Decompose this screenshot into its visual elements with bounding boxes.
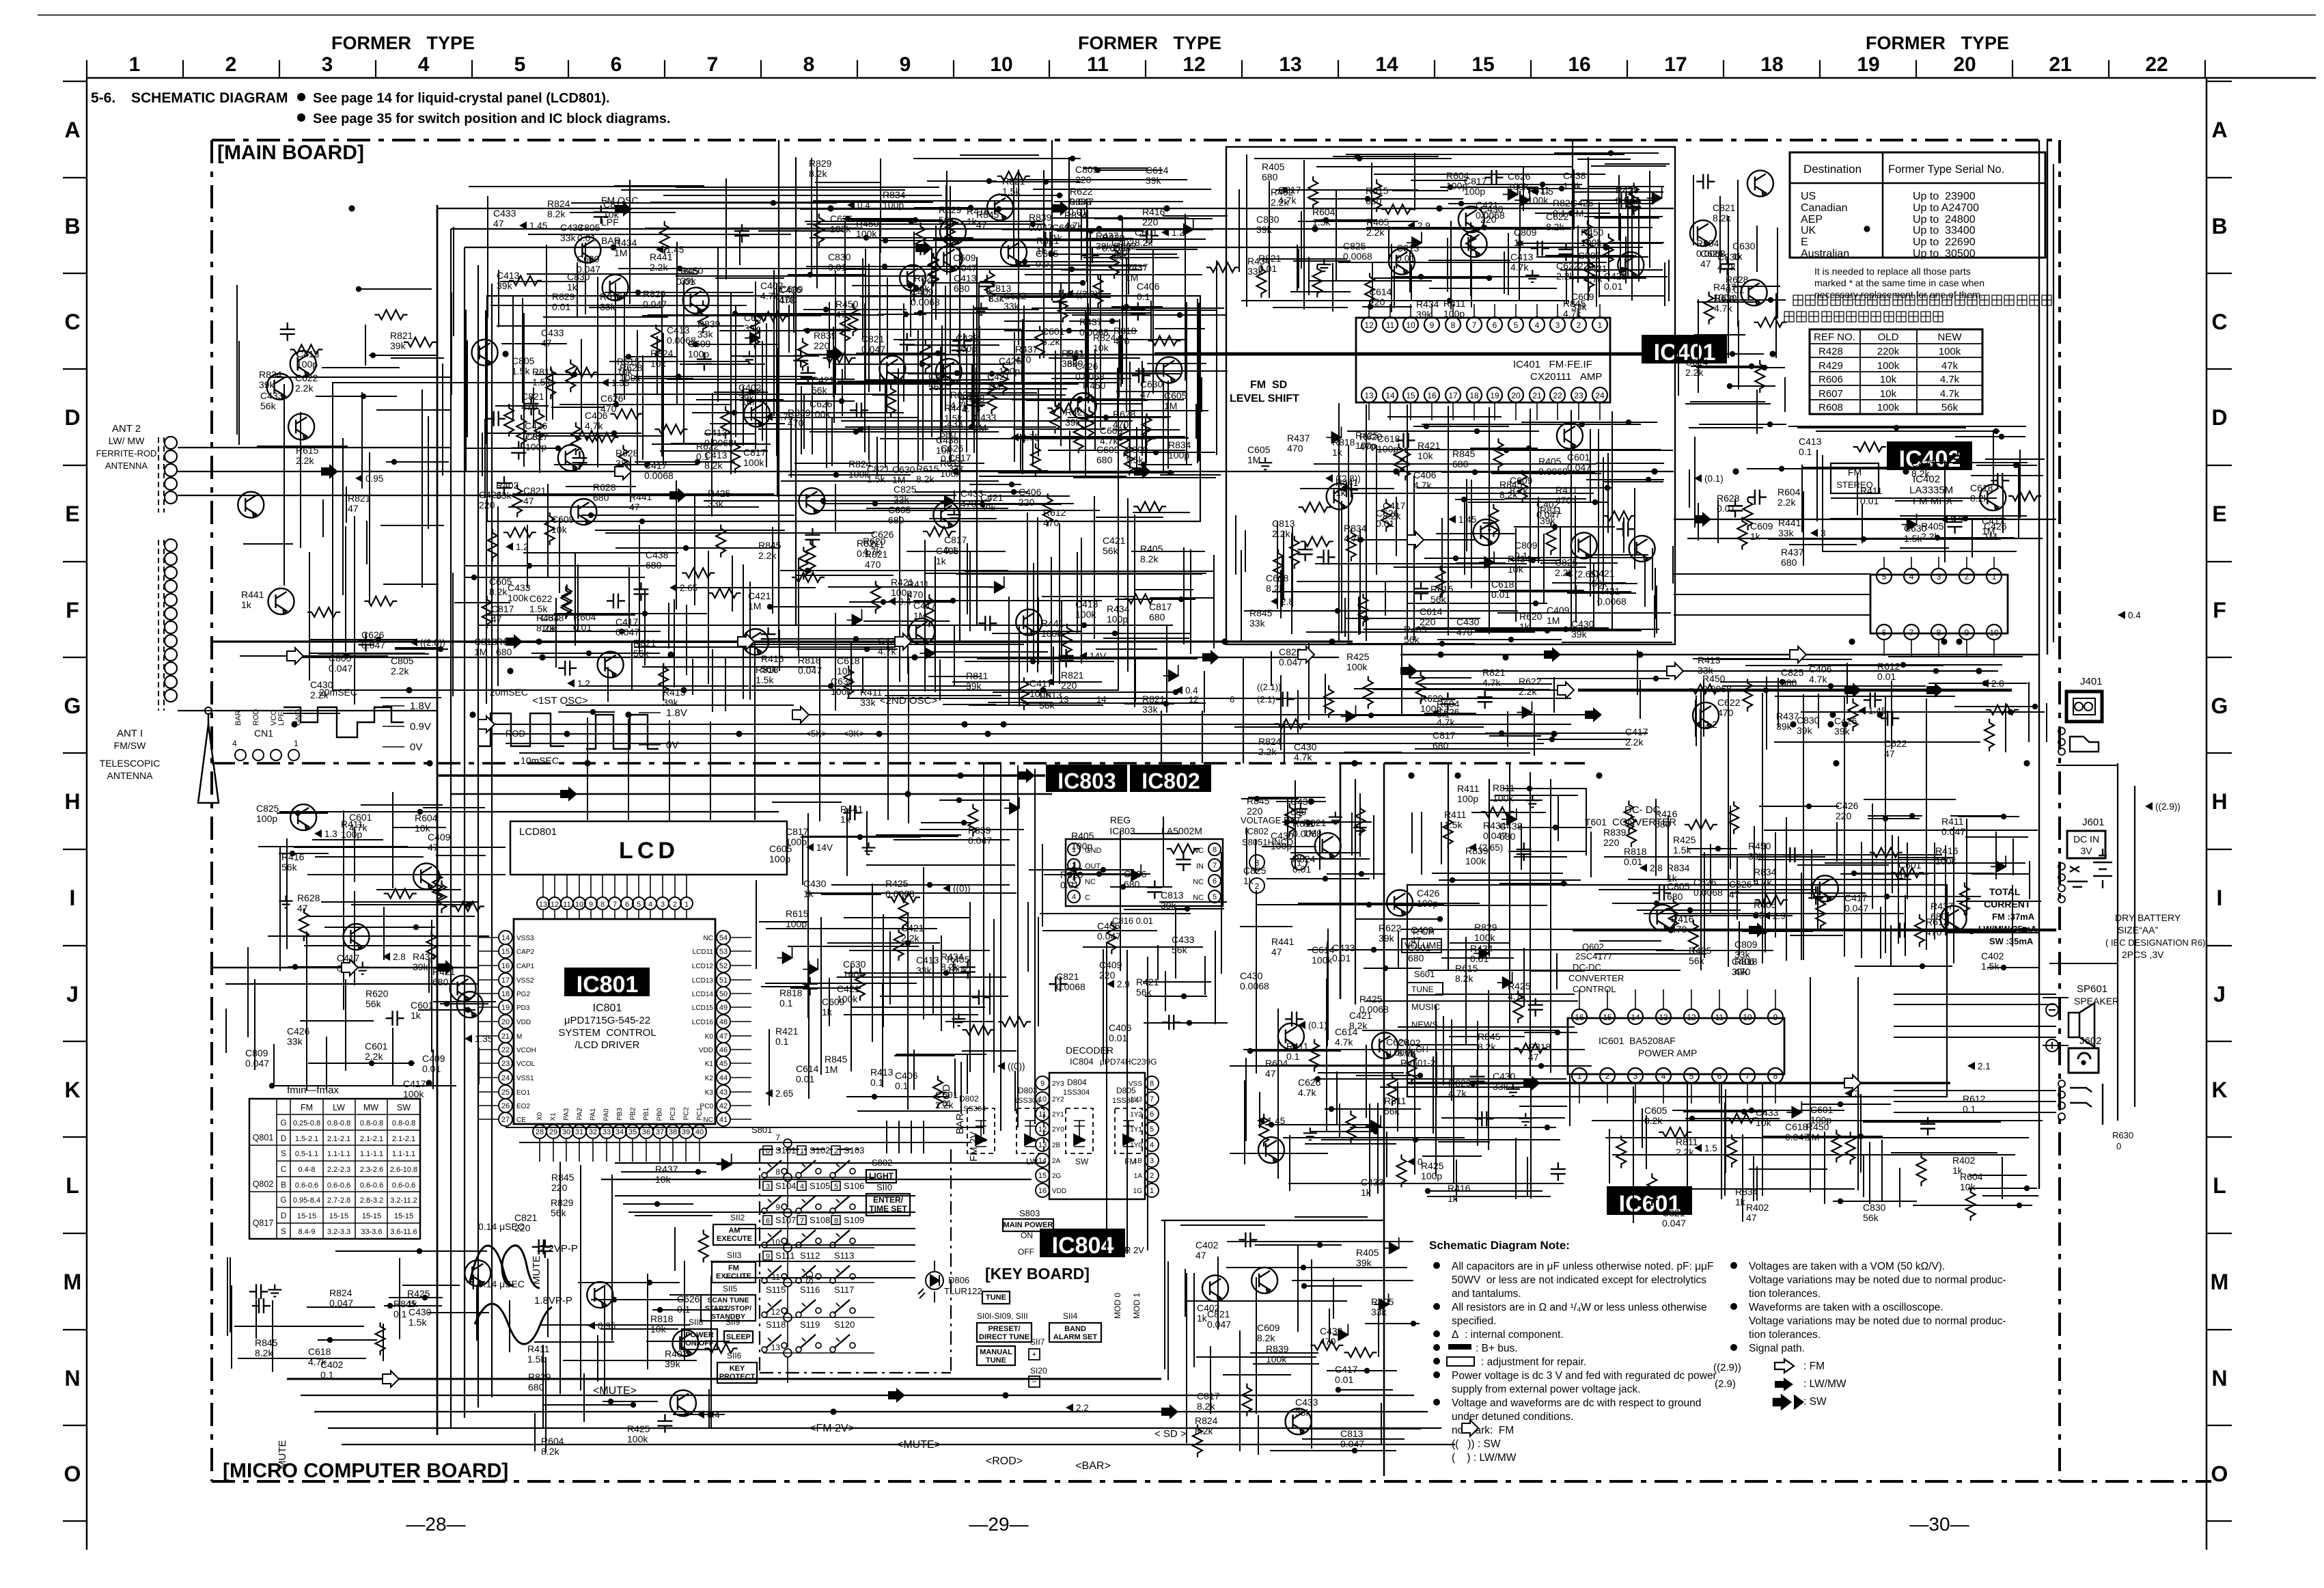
wire [1508, 233, 1509, 295]
wire [908, 373, 1180, 374]
wire [1612, 242, 1664, 243]
svg-text:1.2: 1.2 [577, 679, 590, 689]
resistor [1084, 407, 1094, 439]
svg-text:C618: C618 [308, 1346, 331, 1357]
svg-text:1.8VP-P: 1.8VP-P [534, 1295, 572, 1306]
wire [1554, 152, 1659, 154]
svg-text:NC: NC [1085, 878, 1096, 886]
wire [613, 394, 887, 395]
transistor [575, 237, 600, 263]
svg-text:0.0068: 0.0068 [1476, 210, 1505, 221]
wire [866, 508, 1008, 509]
svg-text:R620: R620 [1060, 869, 1083, 880]
wire [1604, 481, 1663, 482]
svg-text:—28—: —28— [406, 1514, 465, 1535]
svg-text:4.7k: 4.7k [1298, 1087, 1316, 1098]
svg-text:R411: R411 [1444, 809, 1467, 820]
column tick [1627, 60, 1628, 78]
svg-text:C421: C421 [980, 492, 1004, 503]
svg-text:R405: R405 [1262, 161, 1285, 172]
svg-text:PC3: PC3 [669, 1107, 677, 1121]
svg-text:39k: 39k [1732, 966, 1748, 977]
capacitor [497, 476, 512, 495]
wire [1246, 154, 1247, 307]
svg-text:100k: 100k [830, 223, 851, 234]
svg-text:M: M [516, 1033, 522, 1041]
junction [361, 394, 366, 399]
wire [635, 376, 812, 377]
bus wire [1926, 698, 1927, 950]
switch S104 [762, 1181, 796, 1214]
wire [1094, 349, 1096, 450]
svg-text:C618: C618 [1970, 482, 1993, 493]
svg-text:R437: R437 [655, 1164, 678, 1175]
svg-text:START/STOP/: START/STOP/ [705, 1304, 752, 1313]
transistor [238, 492, 264, 518]
svg-text:38: 38 [669, 1128, 677, 1136]
svg-text:IC801: IC801 [577, 972, 639, 998]
svg-text:0: 0 [766, 1147, 770, 1155]
svg-text:1k: 1k [411, 1010, 421, 1021]
svg-text:5: 5 [1689, 1071, 1694, 1081]
svg-text:8: 8 [600, 901, 605, 909]
wire [1993, 640, 1995, 656]
svg-text:6: 6 [1493, 320, 1497, 330]
column tick [1915, 60, 1917, 78]
svg-text:R821: R821 [1142, 694, 1165, 704]
svg-text:4.7k: 4.7k [878, 646, 896, 657]
svg-text:R622: R622 [1070, 186, 1093, 197]
IC401 pin 18 [1467, 387, 1482, 402]
svg-text:470: 470 [1320, 1336, 1336, 1347]
switch S108 [796, 1215, 830, 1248]
wire [787, 1181, 788, 1207]
wire [1374, 277, 1491, 279]
svg-text:680: 680 [1433, 740, 1449, 751]
svg-text:470: 470 [1717, 707, 1734, 718]
svg-text:All capacitors are in μF unles: All capacitors are in μF unless otherwis… [1452, 1261, 1713, 1272]
svg-text:R434: R434 [1508, 553, 1531, 564]
svg-text:100p: 100p [769, 853, 790, 864]
bus wire [1340, 763, 1342, 999]
svg-text:C609: C609 [1571, 291, 1594, 302]
wire [992, 633, 1190, 634]
svg-text:14: 14 [1631, 1013, 1640, 1022]
svg-text:/LCD DRIVER: /LCD DRIVER [575, 1039, 639, 1051]
svg-text:BAR: BAR [234, 710, 243, 726]
wire [787, 1252, 788, 1278]
svg-text:S103: S103 [844, 1145, 864, 1155]
junction [732, 410, 737, 415]
svg-text:23: 23 [501, 1060, 510, 1068]
svg-text:44: 44 [719, 1074, 728, 1082]
wire [1448, 469, 1449, 570]
wire [826, 400, 827, 468]
svg-text:R450: R450 [1581, 227, 1604, 238]
wire [485, 310, 486, 444]
svg-text:3: 3 [1855, 1089, 1860, 1099]
wire [907, 344, 999, 346]
svg-text:C817: C817 [786, 826, 809, 837]
bus wire [437, 208, 1674, 209]
svg-text:<MUTE>: <MUTE> [593, 1385, 637, 1397]
svg-text:56k: 56k [1103, 545, 1119, 556]
row tick right [2207, 1136, 2232, 1138]
svg-text:C605: C605 [1644, 1105, 1668, 1116]
svg-text:0.0068: 0.0068 [1292, 828, 1322, 839]
wire [1002, 229, 1213, 230]
svg-text:< SD >: < SD > [1154, 1428, 1187, 1440]
wire [766, 532, 874, 534]
row tick right [2207, 81, 2232, 82]
wire [555, 598, 557, 668]
svg-text:6: 6 [625, 901, 629, 909]
svg-text:C417: C417 [913, 600, 937, 611]
svg-text:R405: R405 [1538, 456, 1562, 467]
svg-text:15: 15 [501, 948, 510, 956]
wire [590, 875, 592, 897]
wire [835, 484, 836, 532]
bus wire [710, 1261, 915, 1262]
wire [365, 325, 366, 366]
switch S115 [762, 1285, 787, 1317]
wire [1293, 260, 1351, 262]
wire [1452, 304, 1454, 317]
wire [1272, 591, 1499, 592]
svg-text:220: 220 [551, 1182, 568, 1193]
svg-text:680: 680 [646, 560, 662, 571]
transistor [936, 359, 962, 385]
resistor [1256, 265, 1266, 298]
minus box [1029, 1376, 1040, 1387]
svg-text:VDD: VDD [1052, 1188, 1066, 1195]
svg-text:8.2k: 8.2k [1713, 213, 1731, 223]
diode box D805 [1115, 1108, 1142, 1153]
svg-text:<ROD>: <ROD> [986, 1455, 1023, 1467]
wire [787, 1322, 788, 1347]
svg-text:100k: 100k [837, 994, 858, 1004]
svg-text:47: 47 [541, 338, 552, 348]
svg-text:0.047: 0.047 [643, 299, 667, 310]
junction [1365, 196, 1370, 202]
svg-text:C821: C821 [514, 1212, 538, 1223]
svg-text:PA2: PA2 [577, 1108, 584, 1121]
svg-text:4: 4 [232, 739, 237, 748]
svg-text:0.0068: 0.0068 [1056, 981, 1085, 992]
svg-text:C430: C430 [1294, 741, 1317, 752]
IC601 pin 12 [1684, 1009, 1699, 1024]
LCD pin 6 [621, 897, 633, 909]
svg-text:F: F [2213, 598, 2226, 622]
bus wire [314, 1411, 1428, 1412]
svg-text:C825: C825 [894, 484, 917, 495]
wire [717, 247, 719, 402]
svg-text:10: 10 [575, 901, 583, 909]
wire [1096, 648, 1157, 650]
row tick left [63, 849, 87, 850]
wire [1014, 332, 1015, 462]
svg-text:K0: K0 [705, 1033, 714, 1041]
svg-text:R628: R628 [1717, 493, 1740, 504]
wire [386, 461, 449, 463]
row tick right [2207, 273, 2232, 274]
wire [579, 685, 749, 687]
wire [1440, 187, 1538, 188]
bus wire [1355, 779, 1356, 1004]
svg-text:28: 28 [536, 1128, 544, 1136]
svg-text:11: 11 [563, 901, 570, 909]
IC804 pin 10 [1036, 1092, 1049, 1106]
svg-text:R402: R402 [1746, 1202, 1769, 1213]
svg-text:S117: S117 [834, 1285, 854, 1295]
svg-text:C813: C813 [1340, 1428, 1364, 1439]
diode [1178, 219, 1193, 235]
svg-text:10k: 10k [541, 622, 557, 633]
svg-text:48: 48 [719, 1018, 728, 1026]
bus wire [1147, 957, 1148, 1250]
svg-text:1.5k: 1.5k [1444, 819, 1463, 830]
svg-text:PD3: PD3 [516, 1004, 530, 1012]
wire [865, 249, 866, 383]
wire [626, 875, 628, 897]
wire [1596, 463, 1664, 464]
wire [542, 875, 544, 897]
svg-text:0.0068: 0.0068 [1597, 596, 1627, 607]
resistor [566, 359, 575, 392]
wire [283, 384, 285, 586]
wire [639, 744, 661, 745]
wire [309, 653, 425, 654]
wire [1428, 260, 1510, 261]
CN1 connector [232, 709, 303, 761]
bus wire [1106, 943, 1107, 1257]
svg-text:C421: C421 [812, 374, 835, 385]
svg-text:R411: R411 [1860, 485, 1883, 496]
junction [1453, 556, 1458, 561]
svg-text:20: 20 [1511, 391, 1521, 400]
wire [1059, 605, 1060, 669]
wire [579, 875, 580, 897]
wire [1482, 629, 1659, 630]
svg-text:C406: C406 [585, 410, 608, 421]
svg-text:PRESET/: PRESET/ [988, 1325, 1020, 1333]
wire [1527, 188, 1633, 189]
svg-text:0.0068: 0.0068 [885, 888, 915, 899]
wire [478, 1049, 499, 1050]
svg-text:1.45: 1.45 [666, 245, 684, 255]
svg-text:21: 21 [1532, 391, 1542, 400]
svg-text:470: 470 [779, 295, 795, 305]
svg-text:R612: R612 [1877, 661, 1900, 672]
bus wire [2134, 786, 2135, 1107]
transistor [1461, 231, 1487, 257]
junction [1563, 627, 1568, 632]
svg-text:—29—: —29— [969, 1514, 1028, 1535]
svg-text:100k: 100k [1041, 628, 1062, 639]
column tick [1434, 60, 1435, 78]
svg-text:C605: C605 [1036, 248, 1059, 259]
wire [1297, 581, 1531, 582]
ground [1317, 259, 1331, 271]
svg-text:33k: 33k [287, 1036, 303, 1047]
wire [451, 292, 452, 395]
wire [1185, 214, 1186, 381]
svg-text:14V: 14V [1090, 651, 1106, 661]
column tick [1049, 60, 1050, 78]
wire [1033, 563, 1034, 661]
box [2069, 1048, 2099, 1073]
wire [874, 266, 1030, 267]
svg-text:ANT I: ANT I [117, 728, 143, 739]
svg-text:CAP1: CAP1 [516, 963, 535, 970]
junction [845, 216, 850, 221]
svg-text:100k: 100k [831, 686, 852, 697]
ref col divider 2 [1916, 329, 1918, 414]
IC801 pin 20 [499, 1015, 512, 1028]
transistor [603, 275, 628, 301]
svg-text:C601: C601 [935, 1089, 958, 1100]
transistor [744, 401, 770, 427]
wire [1282, 557, 1283, 607]
svg-text:CURRENT: CURRENT [1984, 899, 2031, 909]
svg-text:C433: C433 [1295, 1397, 1318, 1408]
junction [1030, 659, 1036, 664]
wire [708, 551, 709, 684]
svg-text:33k: 33k [1295, 1407, 1312, 1418]
row tick left [63, 177, 87, 178]
audio wire [1894, 1037, 2056, 1038]
capacitor [1132, 368, 1150, 383]
wire [1599, 295, 1664, 297]
row tick right [2207, 752, 2232, 754]
svg-text:R416: R416 [761, 653, 784, 664]
wire [1336, 191, 1337, 280]
wire [1504, 251, 1505, 294]
resistor [1109, 246, 1119, 279]
wire [772, 527, 773, 614]
svg-text:SII8: SII8 [689, 1317, 704, 1327]
LCD pin 11 [561, 897, 573, 909]
svg-text:R441: R441 [629, 491, 652, 502]
svg-text:20: 20 [501, 1018, 510, 1026]
svg-text:1.45: 1.45 [1458, 515, 1476, 525]
svg-text:MUTE: MUTE [531, 1256, 542, 1285]
junction [968, 205, 973, 210]
wire [1022, 319, 1023, 474]
svg-text:0.01: 0.01 [573, 622, 592, 633]
svg-text:1.45: 1.45 [529, 221, 547, 231]
resistor [848, 303, 858, 336]
wire [577, 262, 578, 318]
svg-text:100p: 100p [1355, 440, 1377, 451]
svg-text:100p: 100p [1421, 1171, 1442, 1181]
svg-text:C409: C409 [1411, 925, 1434, 935]
svg-text:47: 47 [428, 842, 439, 853]
capacitor [1614, 193, 1633, 208]
svg-text:4: 4 [418, 53, 430, 76]
row tick left [63, 945, 87, 946]
svg-text:680: 680 [1124, 879, 1140, 890]
svg-text:PG2: PG2 [516, 991, 530, 998]
wire [715, 277, 784, 279]
svg-text:C433: C433 [1756, 1107, 1779, 1118]
svg-text:14: 14 [1038, 1157, 1047, 1165]
svg-text:4.7k: 4.7k [962, 403, 980, 414]
svg-text:<FM 2V>: <FM 2V> [810, 1423, 855, 1434]
bus wire [983, 763, 984, 1134]
svg-text:FM: FM [1124, 1157, 1136, 1166]
wire [478, 937, 499, 938]
wire [965, 571, 1215, 572]
svg-text:3: 3 [1937, 572, 1941, 581]
resistor [1124, 594, 1157, 603]
svg-text:9: 9 [1430, 320, 1435, 330]
svg-text:E: E [2212, 502, 2226, 526]
svg-text:D806: D806 [948, 1275, 969, 1285]
wire [1558, 450, 1627, 451]
svg-text:100p: 100p [525, 441, 547, 452]
wire [674, 875, 676, 897]
junction [1424, 424, 1429, 429]
svg-text:19: 19 [1857, 53, 1879, 76]
svg-text:A: A [2211, 118, 2227, 142]
svg-text:100p: 100p [1457, 793, 1478, 804]
wire [894, 339, 1088, 340]
svg-text:1.5k: 1.5k [409, 1317, 427, 1328]
svg-text:680: 680 [1781, 557, 1797, 568]
destination table frame [1790, 152, 2045, 258]
junction [1358, 537, 1364, 543]
svg-text:S120: S120 [834, 1319, 855, 1330]
svg-text:12: 12 [1038, 1125, 1047, 1134]
svg-text:680: 680 [432, 976, 449, 987]
svg-text:C821: C821 [1713, 202, 1736, 213]
svg-text:100p: 100p [1446, 180, 1467, 191]
column tick [86, 60, 87, 78]
column tick [2012, 60, 2013, 78]
svg-text:LCD16: LCD16 [692, 1019, 714, 1026]
svg-text:39k: 39k [1834, 726, 1851, 737]
svg-text:2.8: 2.8 [1281, 597, 1294, 607]
junction [1163, 701, 1169, 707]
svg-text:1.5-2.1: 1.5-2.1 [295, 1135, 318, 1143]
column tick [182, 60, 184, 78]
IC402 pin 5 [1877, 569, 1892, 584]
wire [699, 1138, 700, 1162]
bus wire [1126, 950, 1128, 1254]
IC601 pin 5 [1684, 1068, 1699, 1083]
box [763, 1146, 772, 1155]
IC804 pin 7 [1145, 1092, 1159, 1106]
resistor [509, 276, 542, 286]
svg-text:K: K [2211, 1078, 2227, 1102]
ref table [1810, 329, 1982, 414]
wire [1333, 156, 1439, 157]
resistor [750, 316, 760, 348]
svg-text:2.9: 2.9 [1117, 979, 1130, 989]
junction [642, 611, 648, 616]
svg-text:47: 47 [297, 903, 308, 914]
svg-text:39k: 39k [1096, 241, 1112, 251]
svg-text:See page 35 for switch positio: See page 35 for switch position and IC b… [313, 111, 670, 126]
IC803 pin 8 [1208, 843, 1221, 855]
node 13 [784, 1349, 792, 1357]
IC801 pin 49 [717, 1000, 730, 1014]
wire [240, 655, 388, 657]
svg-text:C630: C630 [1904, 523, 1927, 534]
column tick [568, 60, 569, 78]
IC601 pin 6 [1712, 1068, 1727, 1083]
